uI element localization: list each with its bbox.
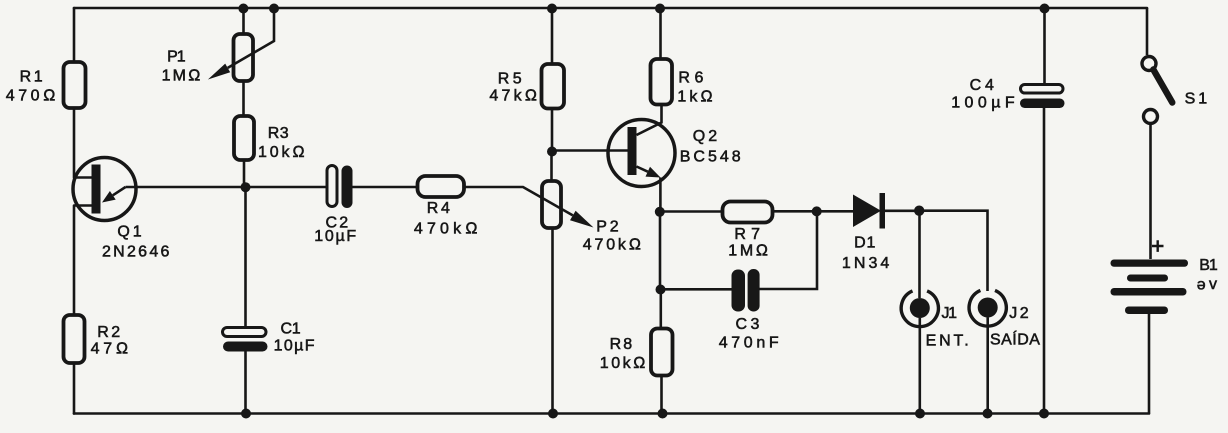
potentiometer P1 1M xyxy=(162,13,274,85)
resistor R5 xyxy=(489,8,564,152)
svg-text:BC548: BC548 xyxy=(680,148,741,165)
svg-text:D1: D1 xyxy=(854,235,875,252)
wire Q1 emitter to C2 xyxy=(126,186,328,189)
wire bottom rail xyxy=(74,412,1149,415)
wire output node to J2 xyxy=(919,211,988,291)
svg-text:J2: J2 xyxy=(1009,305,1028,322)
jack J1 ENT. xyxy=(901,211,969,414)
svg-text:470nF: 470nF xyxy=(719,334,779,351)
resistor R1 xyxy=(6,62,86,108)
resistor R8 xyxy=(600,290,673,414)
resistor R4 xyxy=(414,176,478,238)
battery B1 9V xyxy=(1111,240,1218,413)
svg-text:R5: R5 xyxy=(498,71,522,88)
wire node down to C3 level xyxy=(659,212,662,290)
arrowhead P2 wiper xyxy=(570,211,594,228)
jack J2 SAIDA xyxy=(969,290,1040,413)
svg-text:10µF: 10µF xyxy=(274,338,315,355)
node junction dot C3 left xyxy=(656,285,666,295)
node dot bottom rail at P2 xyxy=(548,409,558,419)
svg-text:J1: J1 xyxy=(942,305,958,322)
svg-text:470Ω: 470Ω xyxy=(6,87,56,104)
svg-text:47kΩ: 47kΩ xyxy=(489,87,537,104)
svg-text:470kΩ: 470kΩ xyxy=(414,221,478,238)
node dot bottom rail at J2 xyxy=(983,409,993,419)
svg-text:R6: R6 xyxy=(678,70,703,87)
svg-text:R3: R3 xyxy=(268,125,289,142)
svg-text:1kΩ: 1kΩ xyxy=(677,88,712,105)
resistor R6 xyxy=(651,8,713,105)
svg-text:ə: ə xyxy=(1197,276,1206,293)
svg-text:1N34: 1N34 xyxy=(842,255,889,272)
svg-text:R7: R7 xyxy=(734,226,760,243)
transistor Q2 BC548 xyxy=(608,105,741,213)
svg-text:ENT.: ENT. xyxy=(926,332,969,349)
svg-text:470kΩ: 470kΩ xyxy=(583,237,641,254)
switch S1 xyxy=(1142,8,1207,259)
svg-text:P1: P1 xyxy=(167,49,186,66)
svg-text:R8: R8 xyxy=(610,336,633,353)
transistor Q1 (UJT 2N2646) xyxy=(73,158,169,261)
wire Q1 base1 lead to R2 xyxy=(73,206,76,316)
svg-text:C4: C4 xyxy=(970,77,994,94)
wire Q2 base xyxy=(552,149,628,152)
node junction dot Q2 emitter / R7 / R8 xyxy=(655,207,665,217)
wire top rail xyxy=(74,7,1147,10)
wire R1 to Q1 base2 lead xyxy=(73,108,76,178)
svg-text:v: v xyxy=(1209,276,1217,293)
node dot top rail at R6 xyxy=(655,4,665,14)
svg-text:R1: R1 xyxy=(20,68,43,85)
capacitor C4 100uF xyxy=(951,8,1064,414)
node junction dot Q1 emitter / R3 / C1 xyxy=(241,182,251,192)
capacitor C1 10uF xyxy=(223,187,315,414)
svg-text:R4: R4 xyxy=(427,200,450,217)
svg-text:C3: C3 xyxy=(736,316,760,333)
svg-text:Q1: Q1 xyxy=(117,224,141,241)
svg-text:1MΩ: 1MΩ xyxy=(728,243,768,260)
resistor R2 xyxy=(64,315,129,363)
svg-text:47Ω: 47Ω xyxy=(91,341,129,358)
node junction dot R5/P2/Q2 base xyxy=(547,147,557,157)
diode D1 1N34 xyxy=(842,193,919,272)
node dot top rail at P1 body xyxy=(238,4,248,14)
potentiometer P2 470k xyxy=(542,152,641,414)
node dot bottom rail at R8 xyxy=(658,409,668,419)
svg-text:B1: B1 xyxy=(1199,257,1218,274)
svg-text:SAÍDA: SAÍDA xyxy=(990,330,1040,349)
node dot top rail at R5 xyxy=(547,4,557,14)
svg-text:S1: S1 xyxy=(1185,90,1208,107)
svg-text:Q2: Q2 xyxy=(693,128,717,145)
svg-text:1MΩ: 1MΩ xyxy=(162,68,201,85)
capacitor C2 10uF xyxy=(314,166,356,245)
node junction dot R7/C3 right xyxy=(812,206,822,216)
node dot top rail at C4 xyxy=(1040,4,1050,14)
node dot bottom rail at J1 xyxy=(915,409,925,419)
svg-text:2N2646: 2N2646 xyxy=(102,244,169,261)
node dot bottom rail at C1 xyxy=(241,409,251,419)
svg-text:10µF: 10µF xyxy=(314,228,356,245)
svg-text:10kΩ: 10kΩ xyxy=(258,144,305,161)
node dot bottom rail at C4 xyxy=(1039,409,1049,419)
wire R4 to P2 wiper xyxy=(464,187,573,215)
node junction dot D1 out / J1 xyxy=(914,206,924,216)
svg-text:C1: C1 xyxy=(281,321,301,338)
svg-text:100µF: 100µF xyxy=(951,94,1015,111)
resistor R3 xyxy=(234,81,305,187)
wire R2 to bottom rail xyxy=(73,363,76,414)
node dot top rail at P1 wiper xyxy=(269,4,279,14)
svg-text:P2: P2 xyxy=(596,218,618,235)
resistor R7 xyxy=(660,202,853,260)
svg-text:10kΩ: 10kΩ xyxy=(600,355,646,372)
svg-text:R2: R2 xyxy=(97,324,120,341)
wire left column top (rail to R1) xyxy=(73,8,76,62)
capacitor C3 470nF xyxy=(661,212,818,352)
wire C2 to R4 xyxy=(353,186,418,189)
